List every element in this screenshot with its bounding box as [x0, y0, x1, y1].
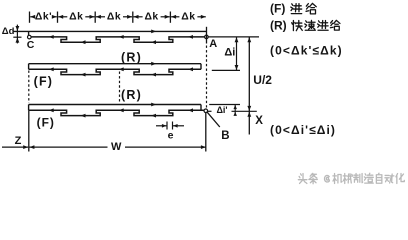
- svg-text:Δd: Δd: [2, 26, 15, 37]
- wire B leader diagonal: [207, 112, 220, 127]
- legend text R rapid: [270, 19, 340, 33]
- dimension segment dk: [96, 12, 132, 23]
- svg-text:(0<Δk'≤Δk): (0<Δk'≤Δk): [270, 43, 343, 57]
- svg-text:(F): (F): [270, 1, 285, 15]
- dimension delta-i-prime small vertical: [234, 105, 237, 116]
- node C start circle: [28, 35, 32, 39]
- svg-text:U/2: U/2: [253, 73, 272, 87]
- dimension delta-d vertical line with arrows and ticks: [13, 25, 21, 44]
- svg-text:W: W: [111, 141, 122, 153]
- node B circle: [204, 109, 208, 113]
- svg-text:(R): (R): [121, 51, 142, 65]
- wire pass-1 rapid line R: [13, 30, 206, 34]
- svg-text:X: X: [255, 115, 263, 127]
- dimension segment dk: [134, 12, 170, 23]
- wire pass-2 feed path with pecks: [29, 67, 201, 76]
- watermark: [298, 173, 404, 184]
- wire pass-3 feed path with pecks: [29, 108, 204, 117]
- wire pass-3 rapid line R: [29, 103, 201, 107]
- node tick marks of top dimension chain: [30, 12, 171, 23]
- svg-text:Δk: Δk: [144, 12, 158, 23]
- wire pass-1 left connector: [28, 31, 30, 35]
- svg-text:A: A: [209, 38, 217, 50]
- dimension segment dk: [58, 12, 94, 23]
- svg-text:(R): (R): [270, 19, 287, 33]
- svg-text:(R): (R): [121, 88, 142, 102]
- legend text F feed: [270, 1, 316, 15]
- wire pass-1 feed path with pecks: [31, 35, 204, 44]
- node A circle: [205, 35, 209, 39]
- dimension segment dk': [30, 12, 57, 23]
- svg-text:Δi': Δi': [216, 105, 227, 115]
- wire delta-i lower extension line: [212, 69, 240, 71]
- wire pass-3 right connector: [200, 105, 202, 111]
- wire B-level extension line: [208, 110, 257, 112]
- wire A-level extension line: [208, 36, 259, 38]
- svg-text:Δk: Δk: [181, 12, 195, 23]
- wire left solid extension down to W line: [28, 110, 30, 151]
- wire pass-3 R-level extension line: [209, 104, 240, 106]
- svg-text:Δi: Δi: [224, 47, 235, 59]
- svg-text:C: C: [27, 39, 35, 51]
- svg-text:e: e: [168, 130, 174, 142]
- svg-text:Δk: Δk: [107, 12, 121, 23]
- dimension e ticks: [167, 122, 173, 130]
- dimension U/2 vertical: [247, 37, 251, 111]
- svg-text:Δk': Δk': [35, 12, 52, 23]
- dimension e arrow lines: [156, 124, 184, 128]
- wire right solid extension B down to W line: [205, 113, 207, 152]
- svg-text:(0<Δi'≤Δi): (0<Δi'≤Δi): [270, 123, 336, 137]
- wire left dashed boundary: [28, 71, 30, 104]
- svg-text:Δk: Δk: [69, 12, 83, 23]
- wire pass-2 left connector: [28, 64, 30, 70]
- dimension X vertical: [247, 111, 251, 134]
- dimension Z-W baseline: [2, 145, 206, 149]
- wire right dashed boundary A to B: [206, 46, 208, 108]
- wire middle dashed boundary: [119, 72, 121, 104]
- wire pass-2 rapid line R: [29, 62, 201, 66]
- svg-text:B: B: [221, 130, 229, 142]
- dimension segment dk: [171, 12, 206, 23]
- wire A tick vertical: [206, 27, 208, 44]
- svg-text:(F): (F): [37, 116, 55, 130]
- dimension delta-i vertical: [235, 37, 239, 71]
- wire pass-2 right connector: [200, 64, 202, 70]
- svg-text:(F): (F): [34, 74, 54, 88]
- wire pass-3 left connector: [28, 105, 30, 111]
- svg-text:Z: Z: [15, 135, 22, 147]
